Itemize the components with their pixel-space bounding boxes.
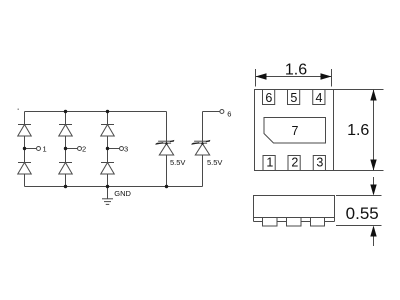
svg-text:7: 7 <box>292 124 299 138</box>
svg-text:6: 6 <box>227 110 231 119</box>
svg-text:1.6: 1.6 <box>285 62 307 79</box>
svg-text:5: 5 <box>290 91 297 105</box>
svg-text:3: 3 <box>316 156 323 170</box>
svg-text:1: 1 <box>43 144 47 153</box>
svg-text:1: 1 <box>266 156 273 170</box>
svg-text:0.55: 0.55 <box>346 204 379 223</box>
svg-text:5.5V: 5.5V <box>207 158 222 167</box>
svg-text:6: 6 <box>265 91 272 105</box>
svg-text:5.5V: 5.5V <box>170 158 185 167</box>
svg-text:1.6: 1.6 <box>347 122 369 139</box>
svg-text:2: 2 <box>291 156 298 170</box>
svg-text:GND: GND <box>114 189 131 198</box>
svg-text:4: 4 <box>316 91 323 105</box>
svg-text:2: 2 <box>82 144 86 153</box>
svg-text:3: 3 <box>124 144 128 153</box>
